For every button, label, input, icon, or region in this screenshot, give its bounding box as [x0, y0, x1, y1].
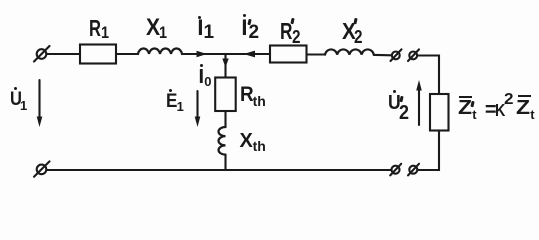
label X1	[0, 0, 1, 1]
wire R1 to X1	[116, 53, 138, 55]
arrow E1	[195, 91, 201, 127]
resistor Rth	[215, 78, 236, 112]
wire terminals to corner	[418, 56, 440, 95]
label U1	[0, 0, 1, 1]
wire Rth to Xth	[224, 111, 226, 127]
terminal top-right A	[391, 49, 402, 61]
terminal bottom-left	[34, 161, 50, 176]
label U2'	[0, 0, 1, 1]
arrowhead I1	[197, 51, 208, 58]
label R2'	[0, 0, 1, 1]
wire R2' to X2'	[307, 53, 326, 55]
label I0	[0, 0, 1, 1]
wire Xth to bottom	[224, 155, 226, 170]
resistor R1	[80, 45, 116, 64]
arrowhead I2'	[244, 51, 256, 58]
arrow U1	[37, 80, 43, 127]
wire load to bottom corner	[418, 131, 440, 171]
terminal bottom-right B	[408, 164, 419, 176]
label Zt' = K2 Zt	[0, 0, 1, 1]
inductor Xth	[219, 127, 226, 155]
label Xth	[0, 0, 1, 1]
inductor X1	[138, 48, 182, 54]
label E1	[0, 0, 1, 1]
arrowhead I0	[222, 59, 228, 68]
wire terminal to R1	[47, 53, 81, 55]
label X2'	[0, 0, 1, 1]
terminal top-left	[34, 46, 50, 62]
inductor X2'	[325, 49, 374, 54]
terminal bottom-right A	[390, 164, 401, 176]
arrow U2'	[416, 80, 422, 125]
wire X1 to junction	[182, 53, 270, 55]
wire X2' to terminals	[374, 54, 392, 56]
resistor R2'	[270, 46, 307, 63]
wire bottom rail	[47, 169, 392, 171]
load Zt'	[430, 94, 449, 131]
node junction	[224, 54, 226, 78]
terminal top-right B	[408, 49, 419, 61]
label I1	[0, 0, 1, 1]
label I2'	[0, 0, 1, 1]
label R1	[0, 0, 1, 1]
label Rth	[0, 0, 1, 1]
